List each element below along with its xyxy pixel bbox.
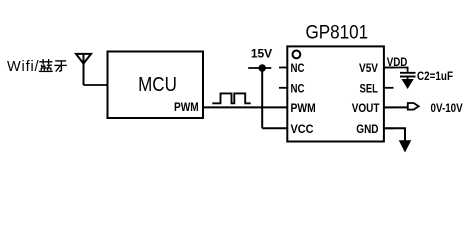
svg-text:GP8101: GP8101 bbox=[306, 21, 369, 43]
wire VOUT to output flag bbox=[384, 106, 408, 108]
wire 15V to VCC pin bbox=[262, 127, 287, 129]
svg-text:GND: GND bbox=[356, 124, 378, 136]
wire GND right and down bbox=[384, 128, 405, 141]
ground (GND pin) bbox=[399, 141, 410, 152]
svg-text:NC: NC bbox=[291, 63, 305, 75]
svg-text:15V: 15V bbox=[251, 47, 272, 61]
svg-text:SEL: SEL bbox=[360, 83, 379, 95]
pin stub NC1 left bbox=[279, 67, 287, 69]
ground (C2) bbox=[402, 79, 413, 88]
svg-text:VCC: VCC bbox=[291, 124, 314, 136]
svg-text:Wifi/: Wifi/ bbox=[7, 59, 40, 75]
svg-text:PWM: PWM bbox=[174, 100, 199, 114]
svg-text:NC: NC bbox=[291, 83, 305, 95]
output flag 0V-10V bbox=[408, 103, 419, 110]
node 15V junction dot bbox=[259, 64, 266, 71]
pin stub VOUT right bbox=[384, 106, 394, 108]
svg-text:0V-10V: 0V-10V bbox=[431, 101, 463, 115]
pin-1 marker circle bbox=[293, 51, 301, 59]
label 蓝 (drawn strokes) bbox=[39, 59, 53, 71]
svg-text:VOUT: VOUT bbox=[352, 103, 380, 115]
capacitor C2 plates bbox=[400, 73, 416, 77]
label 牙 (drawn strokes) bbox=[54, 61, 67, 72]
MCU box bbox=[108, 52, 204, 119]
svg-text:C2=1uF: C2=1uF bbox=[417, 69, 453, 83]
wire antenna to MCU bbox=[84, 84, 108, 86]
wire 15V down bbox=[261, 68, 263, 128]
IC GP8101 box bbox=[287, 46, 384, 141]
pin stub V5V right bbox=[384, 67, 394, 69]
wire MCU PWM to GP8101 PWM bbox=[203, 106, 287, 108]
svg-text:PWM: PWM bbox=[291, 103, 316, 115]
wire V5V to C2 bbox=[384, 68, 408, 72]
svg-text:V5V: V5V bbox=[359, 63, 378, 75]
antenna bbox=[76, 54, 91, 85]
pin stub GND right bbox=[384, 127, 394, 129]
pin stub NC2 left bbox=[279, 87, 287, 89]
pin stub SEL right bbox=[384, 87, 394, 89]
PWM waveform symbol bbox=[212, 93, 250, 103]
svg-text:MCU: MCU bbox=[138, 73, 177, 96]
node 15V bar bbox=[248, 67, 271, 69]
capacitor C2 lower stub bbox=[407, 77, 409, 79]
